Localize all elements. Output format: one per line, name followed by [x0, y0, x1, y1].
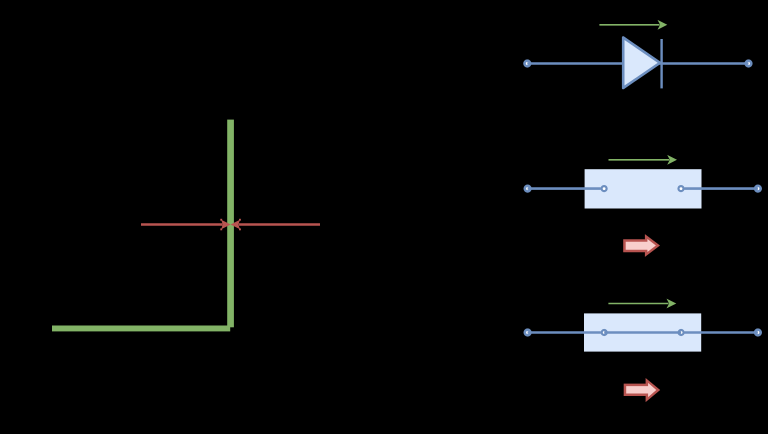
row3 switch body box	[584, 313, 701, 351]
row2 right contact circle	[679, 186, 684, 191]
diode cathode bar	[660, 39, 662, 88]
row3 left wire	[528, 331, 601, 334]
row2 left contact circle	[602, 186, 607, 191]
I-V curve: horizontal green segment	[52, 326, 230, 332]
I-V curve: vertical green segment	[227, 120, 234, 328]
row2 red block arrow	[623, 234, 660, 257]
row3 green current arrow	[608, 299, 676, 309]
red measure arrow right segment	[231, 219, 320, 230]
diode D triangle	[623, 38, 660, 89]
row3 right terminal	[755, 330, 761, 336]
row3 middle wire (closed switch)	[604, 331, 681, 334]
row1 green current arrow	[599, 20, 667, 30]
row3 left terminal	[525, 330, 531, 336]
row3 left contact circle	[602, 330, 607, 335]
row3 red block arrow	[624, 378, 661, 402]
row2 green current arrow	[609, 155, 678, 165]
row2 left terminal	[525, 186, 531, 192]
row1 right terminal	[746, 61, 752, 67]
row1 left terminal	[525, 61, 531, 67]
row2 right wire	[684, 187, 758, 190]
row2 switch body box	[585, 169, 702, 208]
red measure arrow left segment	[141, 219, 231, 230]
row3 right contact circle	[679, 330, 684, 335]
row2 right terminal	[755, 186, 761, 192]
row1 wire	[527, 62, 748, 65]
row3 right wire	[685, 331, 758, 334]
row2 left wire	[528, 187, 601, 190]
